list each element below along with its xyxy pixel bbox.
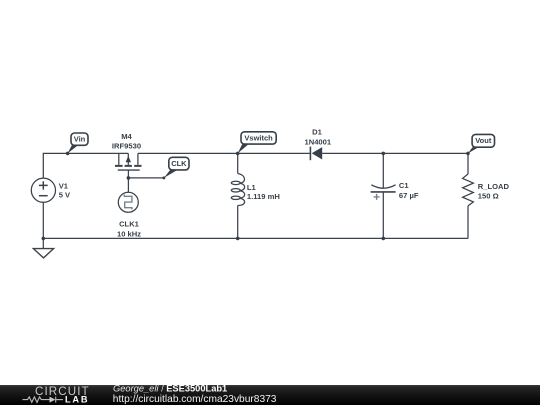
svg-text:George_eli / ESE3500Lab1: George_eli / ESE3500Lab1 [113,383,227,393]
svg-text:V1: V1 [59,181,69,190]
label C1 value [399,181,419,200]
footer logo resistor-diode squiggle [23,397,64,403]
svg-text:CLK: CLK [171,159,187,168]
wire L1 branch top [237,153,239,173]
clock source CLK1 [118,192,138,212]
wire top rail (diode to Vout corner, down to R_LOAD) [322,153,468,174]
label V1 value [59,181,71,199]
svg-text:IRF9530: IRF9530 [112,141,141,150]
label CLK1 value [117,219,141,238]
wire C1 branch bottom [382,192,384,239]
capacitor C1 [371,185,396,200]
net label Vswitch [238,132,277,154]
label R_LOAD value [478,182,510,201]
svg-text:R_LOAD: R_LOAD [478,182,510,191]
footer bar [0,385,540,405]
voltage source V1 [31,178,55,202]
diode D1 [310,147,322,161]
svg-text:CLK1: CLK1 [119,219,140,228]
inductor L1 [231,174,244,206]
svg-text:1N4001: 1N4001 [304,138,331,147]
svg-text:1.119 mH: 1.119 mH [247,192,280,201]
label D1 value [304,128,331,147]
label L1 value [247,183,280,201]
wire C1 branch top [382,153,384,188]
svg-text:LAB: LAB [65,394,89,404]
svg-text:http://circuitlab.com/cma23vbu: http://circuitlab.com/cma23vbur8373 [113,394,277,405]
svg-text:L1: L1 [247,183,257,192]
svg-text:67 µF: 67 µF [399,191,419,200]
svg-text:Vswitch: Vswitch [244,134,273,143]
svg-text:10 kHz: 10 kHz [117,229,141,238]
svg-text:Vout: Vout [475,136,492,145]
wire L1 branch bottom [237,206,239,239]
wire gate to CLK pointer [128,177,164,179]
wire top rail right (MOSFET drain to diode) [138,152,311,154]
svg-text:Vin: Vin [74,135,86,144]
wire V1 bottom [42,202,44,238]
junction dots [42,152,470,241]
wire top rail left (V1 top to MOSFET source) [43,153,128,178]
svg-text:5 V: 5 V [59,190,71,199]
wire gate to clock source [127,178,129,192]
wire bottom rail [43,237,468,239]
net label Vin [68,133,88,153]
svg-text:C1: C1 [399,181,409,190]
ground [33,238,53,258]
label M4 value [112,132,141,150]
wire R_LOAD bottom [467,206,469,239]
net label Vout [468,134,495,153]
svg-text:150 Ω: 150 Ω [478,191,499,200]
net label CLK [164,157,189,178]
resistor R_LOAD [463,174,474,206]
svg-text:D1: D1 [312,128,322,137]
transistor Q M4 (PMOS) [115,153,142,178]
svg-text:M4: M4 [121,132,132,141]
